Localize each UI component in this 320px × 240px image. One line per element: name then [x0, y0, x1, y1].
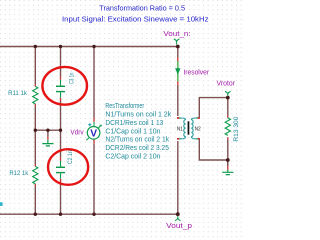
capacitor C2 — [56, 161, 65, 179]
wire: branch x=177.8 (primary) segments — [177, 47, 179, 215]
resistor R13 — [225, 118, 230, 135]
capacitor C3 — [56, 80, 65, 98]
svg-text:Vout_n:: Vout_n: — [163, 31, 190, 38]
svg-text:Vrotor: Vrotor — [217, 80, 236, 87]
left winding pins (red) — [177, 118, 179, 139]
svg-text:DCR1/Res coil 1 13: DCR1/Res coil 1 13 — [105, 120, 163, 127]
right winding N2 coil — [191, 118, 196, 139]
annotation circle around C3 — [42, 67, 87, 105]
svg-text:R12 1k: R12 1k — [9, 170, 28, 177]
wire: mid horizontal (between R and C branches) — [35, 129, 60, 131]
left winding pin dots (green) — [179, 118, 180, 139]
wire: R13 branch — [227, 98, 229, 166]
svg-text:N2/Turns on coil 2 1k: N2/Turns on coil 2 1k — [105, 137, 169, 144]
capacitor C2 pins — [60, 158, 62, 182]
svg-text:R13 300: R13 300 — [233, 116, 240, 141]
svg-text:N1/Turns on coil 1 2k: N1/Turns on coil 1 2k — [105, 112, 171, 119]
resistor R11 pins — [34, 84, 36, 106]
voltage probe marker Vout_p — [175, 215, 181, 221]
svg-text:Vout_p: Vout_p — [166, 223, 192, 230]
junction dots — [34, 45, 37, 48]
svg-text:Vdrv: Vdrv — [70, 130, 84, 137]
resistor R12 — [33, 166, 38, 183]
right winding pins (red) — [198, 118, 200, 139]
wire: branch x=94 (probe) segments — [93, 47, 95, 215]
svg-text:C2/Cap coil 2 10n: C2/Cap coil 2 10n — [105, 153, 160, 160]
svg-text:DCR2/Res coil 2 3.25: DCR2/Res coil 2 3.25 — [105, 145, 169, 152]
svg-text:C1/Cap coil 1 10n: C1/Cap coil 1 10n — [105, 128, 160, 135]
capacitor C3 pins — [60, 77, 62, 101]
wire: bottom horizontal — [0, 213, 178, 215]
voltage probe marker Vrotor — [225, 91, 231, 97]
ground (below R13) — [222, 160, 233, 175]
svg-text:C3 1n: C3 1n — [68, 72, 75, 84]
resistor R12 pins — [34, 164, 36, 186]
current probe arrow Iresolver — [175, 61, 180, 81]
transformer U1 — [177, 118, 201, 139]
right winding pin dots (green) — [197, 118, 198, 139]
svg-text:Transformation Ratio = 0.5: Transformation Ratio = 0.5 — [99, 4, 185, 13]
wire: top horizontal — [0, 46, 178, 48]
wire: branch x=35.3 segments — [34, 47, 36, 215]
wire: branch x=60.5 segments — [60, 47, 62, 215]
current probe pins — [177, 58, 179, 85]
resistor R11 — [33, 86, 38, 104]
voltage probe U Vdrv — [86, 122, 102, 140]
wire: secondary top loop — [199, 98, 228, 118]
page edge marker — [0, 202, 3, 206]
svg-text:R11 1k: R11 1k — [8, 90, 27, 97]
parameter text block — [105, 103, 171, 160]
resistor R13 pins — [227, 116, 229, 140]
svg-text:Input Signal: Excitation Sinew: Input Signal: Excitation Sinewave = 10kH… — [62, 14, 209, 23]
ground (mid wire) — [42, 130, 53, 146]
svg-text:V: V — [90, 129, 97, 140]
svg-text:N2: N2 — [195, 126, 201, 132]
annotation circle around C2 — [48, 149, 88, 185]
svg-text:ResTransformer: ResTransformer — [105, 103, 144, 110]
wire: secondary bottom loop — [199, 139, 228, 160]
voltage probe marker Vout_n — [174, 39, 180, 45]
svg-text:N1: N1 — [177, 126, 183, 132]
core — [188, 121, 190, 134]
svg-text:Iresolver: Iresolver — [183, 69, 209, 76]
svg-text:C2 1n: C2 1n — [67, 150, 74, 164]
left winding N1 coil — [180, 118, 185, 139]
